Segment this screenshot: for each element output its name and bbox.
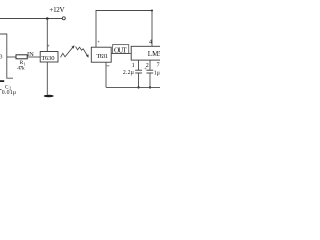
terminal +12V [62, 17, 65, 20]
wire +12V supply rail [0, 18, 62, 20]
wire LM pin2 [149, 60, 151, 70]
IC LM567 [131, 46, 165, 60]
label C2 lead tick [0, 89, 2, 91]
wire LM pin1 [138, 60, 140, 70]
svg-text:+: + [144, 65, 147, 70]
svg-text:1: 1 [132, 63, 135, 69]
svg-text:4: 4 [149, 40, 152, 46]
svg-text:IN: IN [27, 51, 34, 58]
resistor R1 47k [16, 55, 27, 59]
capacitor 2.2u [135, 69, 142, 71]
junction dot (rail to T630) [46, 17, 49, 20]
wire resistor to IN [27, 56, 40, 58]
wire OUT T631 to LM input [111, 52, 131, 54]
boxed label OUT [113, 45, 129, 54]
svg-text:3: 3 [0, 55, 3, 61]
wire T631 supply loop to LM pin4 [96, 11, 152, 48]
IR beam arrow 1 [61, 46, 75, 58]
junction dot cap2 to rail [149, 86, 151, 88]
svg-text:+12V: +12V [49, 6, 64, 14]
capacitor C2 plate mark [0, 80, 4, 82]
svg-text:47k: 47k [17, 66, 25, 72]
IC T631 receiver [91, 47, 111, 62]
svg-text:+: + [97, 40, 100, 45]
wire pin3 feed from left edge [0, 34, 13, 78]
IC T630 transmitter [40, 52, 58, 63]
svg-text:7: 7 [157, 63, 160, 69]
svg-text:1μ: 1μ [154, 71, 160, 77]
wire node3 to resistor [7, 56, 16, 58]
capacitor 1u polarized [146, 69, 153, 71]
junction dot loop corner [151, 10, 153, 12]
svg-text:T630: T630 [41, 55, 55, 62]
wire T630 ground pin [46, 62, 48, 95]
svg-text:0.01μ: 0.01μ [2, 90, 16, 96]
wire T631 ground pin [105, 62, 107, 87]
wire T630 supply pin [46, 19, 48, 52]
ground [44, 95, 54, 98]
polarity tick T631 bottom pin [106, 65, 109, 67]
svg-text:T631: T631 [96, 53, 108, 60]
IR beam arrow 2 [76, 47, 89, 58]
svg-text:LM56: LM56 [148, 50, 160, 58]
svg-text:+: + [47, 45, 50, 50]
ground rail [106, 86, 160, 88]
svg-text:2.2μ: 2.2μ [123, 70, 134, 76]
junction dot cap1 to rail [137, 86, 139, 88]
